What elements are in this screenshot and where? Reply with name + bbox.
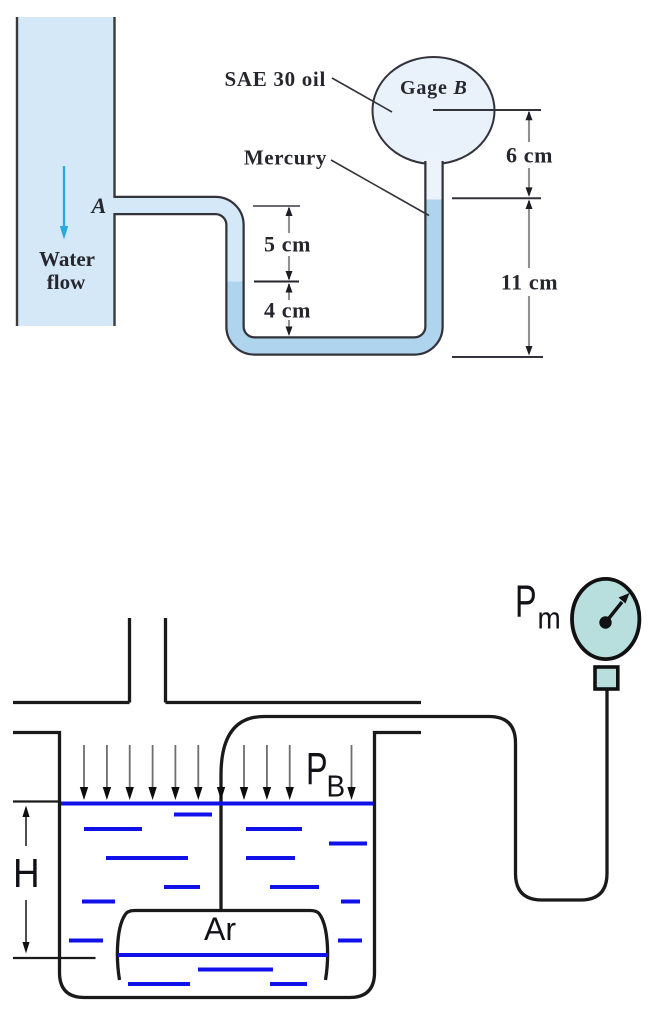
tube oil fill bbox=[427, 160, 442, 203]
gauge dial bbox=[572, 579, 639, 659]
dim 4 cm arrows bbox=[288, 284, 290, 300]
svg-text:11 cm: 11 cm bbox=[501, 270, 558, 295]
tube arrowhead at surface bbox=[217, 787, 225, 800]
Ar object outline bbox=[117, 911, 327, 981]
svg-text:m: m bbox=[538, 601, 561, 636]
dim 11 cm arrows bbox=[528, 201, 530, 268]
svg-text:H: H bbox=[13, 851, 40, 896]
water pipe fill bbox=[18, 17, 115, 326]
dim 6 cm arrows bbox=[528, 112, 530, 142]
gauge needle bbox=[606, 602, 623, 623]
dim tick between 5cm and 4cm bbox=[254, 281, 299, 283]
gauge needle hub bbox=[599, 616, 611, 628]
blue dashes bbox=[69, 815, 367, 985]
tank outline bbox=[13, 733, 421, 998]
plate line right bbox=[166, 701, 422, 704]
svg-text:flow: flow bbox=[47, 270, 86, 294]
pipe right wall bbox=[113, 17, 115, 326]
svg-text:Water: Water bbox=[39, 247, 95, 271]
water surface line bbox=[61, 802, 373, 806]
svg-text:Mercury: Mercury bbox=[244, 146, 327, 170]
gauge stem square bbox=[595, 667, 618, 689]
dim 5 cm arrows bbox=[288, 208, 290, 233]
manometer tube outline bbox=[115, 161, 435, 346]
svg-text:5 cm: 5 cm bbox=[264, 232, 311, 257]
dim tick gage center bbox=[433, 109, 541, 111]
svg-text:P: P bbox=[515, 577, 537, 626]
svg-text:6 cm: 6 cm bbox=[506, 143, 553, 168]
gauge tube bbox=[221, 690, 607, 911]
inlet pipe left wall bbox=[128, 618, 131, 703]
leader Mercury bbox=[331, 160, 429, 216]
svg-text:P: P bbox=[306, 745, 328, 794]
tube mercury fill bbox=[235, 200, 434, 347]
svg-text:Gage B: Gage B bbox=[400, 77, 468, 99]
svg-text:SAE 30 oil: SAE 30 oil bbox=[224, 67, 326, 91]
H dim top tick bbox=[13, 800, 59, 802]
tube water fill bbox=[111, 206, 236, 283]
svg-text:A: A bbox=[90, 193, 107, 218]
Ar blue line bbox=[118, 953, 328, 957]
pressure arrows bbox=[84, 745, 352, 788]
gage B bulb bbox=[373, 57, 495, 164]
H dim bottom tick bbox=[13, 957, 96, 959]
svg-text:Ar: Ar bbox=[204, 911, 236, 947]
dim tick bottom right bbox=[452, 356, 543, 358]
water flow arrow bbox=[63, 166, 65, 228]
plate line left bbox=[13, 701, 130, 704]
dim tick mercury top right bbox=[452, 197, 541, 199]
svg-text:4 cm: 4 cm bbox=[264, 298, 311, 323]
pipe left wall bbox=[16, 17, 18, 326]
dim tick 5cm top bbox=[253, 205, 300, 207]
inlet pipe right wall bbox=[164, 618, 167, 703]
svg-text:B: B bbox=[327, 769, 346, 804]
leader SAE 30 oil bbox=[332, 78, 392, 112]
H dim arrows bbox=[25, 808, 27, 846]
